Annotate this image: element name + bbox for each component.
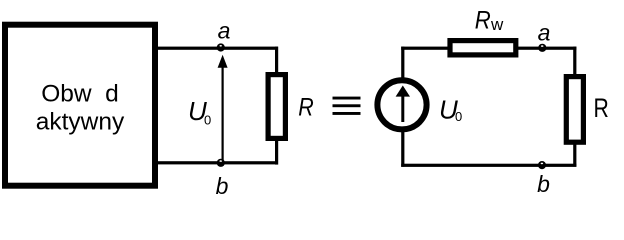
equivalence symbol <box>333 97 361 115</box>
svg-text:b: b <box>537 171 550 197</box>
svg-text:w: w <box>490 15 504 34</box>
active network box <box>5 25 155 186</box>
voltage arrow U0 (left circuit) <box>218 55 228 161</box>
current source U0 (right circuit) <box>377 80 426 129</box>
resistor R (left circuit) <box>268 75 285 139</box>
svg-text:R: R <box>594 93 609 123</box>
wire: source top (right circuit) <box>401 47 404 78</box>
svg-text:Obw d: Obw d <box>41 81 119 108</box>
label U0 (right) <box>439 95 462 125</box>
wire: box to node a (top) <box>157 47 278 50</box>
wire: box to node b (bottom) <box>157 161 278 164</box>
wire: top left segment (right circuit) <box>401 47 450 50</box>
svg-text:a: a <box>538 19 551 45</box>
wire: source bottom (right circuit) <box>401 131 404 167</box>
svg-text:aktywny: aktywny <box>36 109 125 136</box>
label U0 (left) <box>188 96 211 128</box>
label Rw <box>475 7 504 35</box>
wire: bottom (right circuit) <box>401 164 576 167</box>
wire: right vertical (right circuit) <box>573 47 576 167</box>
node a (left) <box>217 43 225 51</box>
resistor Rw <box>450 41 516 55</box>
svg-text:a: a <box>218 18 231 44</box>
node a (right) <box>538 44 546 52</box>
wire: top right segment (right circuit) <box>516 47 577 50</box>
svg-text:0: 0 <box>204 112 211 127</box>
wire: right vertical (left circuit) <box>275 47 278 165</box>
resistor R (right circuit) <box>566 77 583 143</box>
svg-text:0: 0 <box>455 109 462 124</box>
node b (left) <box>217 159 225 167</box>
svg-text:R: R <box>475 7 491 35</box>
svg-text:b: b <box>216 173 229 199</box>
box label "Obw d aktywny" <box>36 81 125 136</box>
node b (right) <box>538 161 546 169</box>
svg-text:R: R <box>298 93 314 121</box>
